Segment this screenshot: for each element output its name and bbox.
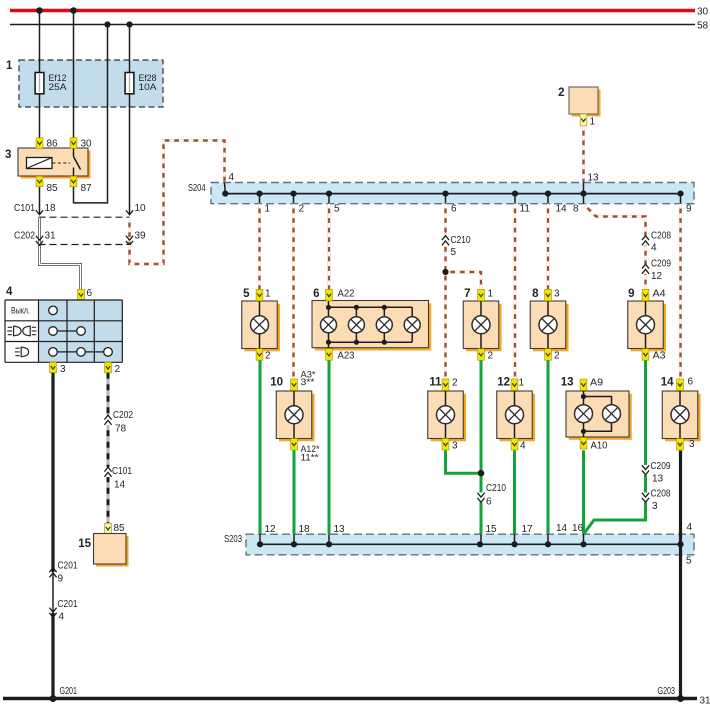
svg-text:1: 1 [590,117,596,128]
svg-text:4: 4 [6,286,13,298]
svg-text:5: 5 [686,556,692,567]
svg-text:86: 86 [47,139,59,150]
svg-text:12: 12 [265,524,277,535]
svg-text:15: 15 [78,538,91,550]
svg-text:11: 11 [429,377,442,389]
svg-text:30: 30 [81,139,93,150]
svg-text:14: 14 [661,377,674,389]
svg-text:7: 7 [464,288,470,300]
svg-text:3: 3 [452,441,458,452]
svg-text:9: 9 [628,288,634,300]
svg-text:C202: C202 [113,410,133,421]
svg-text:C208: C208 [651,489,671,500]
svg-text:3: 3 [652,501,658,512]
svg-text:10: 10 [270,377,283,389]
svg-text:S204: S204 [188,183,206,194]
svg-text:12: 12 [651,271,663,282]
svg-text:3: 3 [5,149,11,161]
svg-text:C202: C202 [14,230,35,241]
svg-text:C208: C208 [651,231,671,242]
svg-text:13: 13 [561,377,574,389]
svg-text:16: 16 [572,523,584,534]
svg-text:A3: A3 [653,351,666,362]
svg-text:39: 39 [135,230,147,241]
svg-text:14: 14 [114,480,126,491]
svg-text:1: 1 [519,378,525,389]
svg-text:2: 2 [558,87,564,99]
svg-text:58: 58 [697,21,709,32]
svg-text:85: 85 [47,183,59,194]
svg-text:C209: C209 [651,259,671,270]
svg-text:G201: G201 [60,686,78,697]
svg-text:5: 5 [243,288,250,300]
svg-text:2: 2 [452,378,458,389]
svg-text:5: 5 [451,247,457,258]
svg-text:A4: A4 [653,289,666,300]
svg-text:9: 9 [686,204,692,215]
svg-text:C201: C201 [58,561,78,572]
svg-text:1: 1 [265,289,271,300]
svg-text:17: 17 [522,524,534,535]
svg-text:S203: S203 [224,534,242,545]
svg-text:C101: C101 [112,466,132,477]
svg-text:9: 9 [58,574,64,585]
svg-text:13: 13 [652,474,664,485]
svg-text:15: 15 [486,524,498,535]
svg-text:1: 1 [488,289,494,300]
svg-text:3: 3 [60,364,66,375]
svg-text:2: 2 [265,351,271,362]
svg-text:2: 2 [488,351,494,362]
svg-text:6: 6 [688,377,694,388]
svg-text:31: 31 [700,696,710,707]
svg-text:11: 11 [520,204,531,215]
svg-text:C210: C210 [486,483,506,494]
svg-text:12: 12 [497,377,510,389]
svg-text:3: 3 [554,289,560,300]
svg-text:A10: A10 [591,441,608,452]
svg-text:6: 6 [451,204,457,215]
svg-text:1: 1 [6,60,13,72]
svg-text:4: 4 [229,172,235,183]
svg-text:4: 4 [59,612,65,623]
svg-text:4: 4 [520,441,526,452]
svg-text:31: 31 [45,230,57,241]
svg-text:3**: 3** [301,377,315,388]
svg-text:85: 85 [114,523,126,534]
svg-text:13: 13 [334,524,346,535]
svg-text:6: 6 [486,497,492,508]
svg-text:2: 2 [554,351,560,362]
svg-text:C209: C209 [651,461,671,472]
svg-text:18: 18 [299,524,311,535]
svg-text:A9: A9 [590,378,603,389]
svg-text:11**: 11** [301,453,319,464]
svg-text:14: 14 [556,523,568,534]
svg-text:18: 18 [45,203,57,214]
svg-text:78: 78 [115,424,127,435]
svg-text:C201: C201 [58,599,78,610]
svg-text:2: 2 [115,364,121,375]
svg-text:8: 8 [532,288,539,300]
svg-text:C210: C210 [451,235,471,246]
svg-text:4: 4 [687,522,693,533]
svg-text:30: 30 [697,7,709,18]
svg-text:1: 1 [265,204,271,215]
svg-text:8: 8 [573,204,579,215]
svg-text:A22: A22 [338,289,355,300]
svg-text:14: 14 [556,204,568,215]
svg-text:5: 5 [334,204,340,215]
svg-text:25A: 25A [49,82,68,93]
svg-text:A23: A23 [338,351,355,362]
svg-text:C101: C101 [14,203,35,214]
svg-text:10A: 10A [139,82,158,93]
svg-text:G203: G203 [658,686,676,697]
svg-text:10: 10 [135,203,147,214]
svg-text:3: 3 [689,439,695,450]
svg-text:Выкл.: Выкл. [11,306,30,316]
svg-text:6: 6 [87,288,93,299]
svg-text:13: 13 [588,173,600,184]
svg-text:87: 87 [81,183,93,194]
svg-text:6: 6 [313,288,319,300]
svg-text:4: 4 [651,243,657,254]
svg-text:2: 2 [299,204,305,215]
